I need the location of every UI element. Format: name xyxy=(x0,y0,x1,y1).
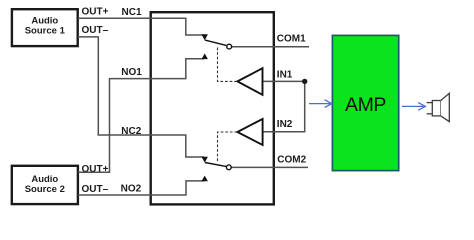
wire IN1 to junction xyxy=(263,80,305,82)
switch S1 control dashed line xyxy=(218,48,237,82)
switch S1 pole xyxy=(205,40,226,45)
AMP box xyxy=(332,35,398,170)
switch S1 NC contact arrow xyxy=(202,34,208,40)
speaker horn xyxy=(441,93,450,121)
wire OUT+1 to NC1 contact xyxy=(78,18,204,35)
switch S2 NO contact arrow xyxy=(202,176,208,182)
wire OUT-1 to NC2 contact xyxy=(78,37,204,157)
speaker terminal stubs xyxy=(427,102,433,104)
switch S1 common circle xyxy=(227,44,232,49)
svg-text:NO1: NO1 xyxy=(121,67,142,78)
Audio Source 2 box xyxy=(12,166,78,204)
switch S2 pole xyxy=(205,163,226,167)
junction dot xyxy=(302,79,307,84)
svg-text:Source 2: Source 2 xyxy=(25,184,65,195)
svg-text:COM2: COM2 xyxy=(277,155,306,166)
svg-text:OUT+: OUT+ xyxy=(82,164,109,175)
switch S2 common circle xyxy=(226,165,231,170)
switch S2 control dashed line xyxy=(218,132,237,161)
wire OUT-2 to NO2 contact xyxy=(78,181,204,195)
svg-text:AMP: AMP xyxy=(345,94,386,116)
svg-text:OUT–: OUT– xyxy=(82,25,109,36)
svg-text:NC1: NC1 xyxy=(122,7,142,18)
svg-text:IN2: IN2 xyxy=(277,119,293,130)
Audio Source 1 box xyxy=(12,9,78,46)
switch S1 NO contact arrow xyxy=(202,54,208,60)
svg-text:NO2: NO2 xyxy=(121,184,142,195)
svg-text:OUT–: OUT– xyxy=(82,184,109,195)
wire junction to IN2 xyxy=(263,81,305,131)
arrow mux to AMP xyxy=(309,100,332,108)
buffer U1B triangle xyxy=(237,119,262,145)
svg-text:COM1: COM1 xyxy=(277,33,306,44)
arrow AMP to speaker xyxy=(402,103,425,111)
switch S2 NC contact arrow xyxy=(202,157,208,163)
mux box U1 xyxy=(151,12,274,204)
buffer U1A triangle xyxy=(237,68,262,95)
wire COM2 stub xyxy=(231,166,308,168)
wire COM1 stub xyxy=(232,46,309,48)
svg-text:IN1: IN1 xyxy=(277,69,293,80)
wire OUT+2 to NO1 contact xyxy=(78,59,204,173)
svg-text:OUT+: OUT+ xyxy=(82,6,109,17)
svg-text:Source 1: Source 1 xyxy=(25,26,66,37)
speaker driver body xyxy=(432,101,441,116)
